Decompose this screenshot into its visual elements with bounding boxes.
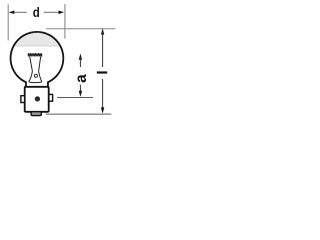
stem exhaust tip circle [34, 74, 37, 77]
extension line top (l) [46, 28, 115, 30]
extension line left (d) [7, 4, 9, 40]
dimension arrow right (d) [58, 11, 64, 15]
extension line right (d) [64, 4, 66, 39]
glass stem flare [29, 71, 42, 82]
bayonet tab left [21, 96, 25, 103]
cap chord edge [14, 45, 59, 47]
svg-text:d: d [33, 4, 40, 20]
bottom contact [31, 112, 41, 116]
dimension line l [101, 28, 104, 34]
filament [28, 53, 42, 56]
lead wire right [39, 57, 41, 72]
background [0, 0, 120, 120]
bayonet tab right [49, 94, 53, 101]
svg-text:l: l [95, 71, 110, 75]
dimension arrow left (d) [9, 11, 15, 15]
base shell [25, 87, 49, 112]
extension line a bottom [57, 97, 93, 99]
dimension line a [79, 54, 82, 60]
bulb glass fill [11, 32, 64, 87]
lead wire left [30, 57, 33, 72]
bayonet pin [35, 96, 40, 101]
bulb glass outline [11, 32, 64, 87]
extension line bottom (l) [46, 113, 112, 115]
silver top cap fill [14, 33, 59, 46]
svg-text:a: a [73, 74, 90, 83]
